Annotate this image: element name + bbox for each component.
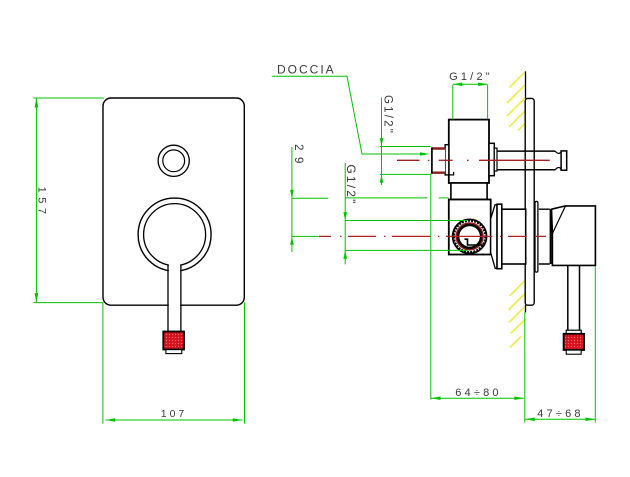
- svg-text:G1/2": G1/2": [381, 95, 393, 135]
- dimension 107: [103, 302, 245, 423]
- handle tube: [539, 209, 550, 264]
- cartridge ring outer: [453, 219, 487, 253]
- wall hatch upper: [507, 72, 526, 131]
- centerline cartridge axis: [319, 235, 546, 237]
- handle ring strip: [535, 201, 538, 272]
- cover plate: [103, 98, 244, 305]
- body ledge notch: [449, 172, 454, 175]
- svg-text:G1/2": G1/2": [344, 164, 358, 205]
- right collar: [489, 143, 494, 175]
- pipe end cap: [561, 151, 567, 170]
- lever side: [568, 265, 580, 331]
- wall line: [525, 71, 527, 312]
- cartridge ring knurl: [454, 221, 485, 252]
- lever bar sides: [168, 265, 181, 332]
- connector cone body to flange: [491, 205, 497, 268]
- svg-text:107: 107: [161, 408, 188, 420]
- dimension 64÷80: [431, 174, 524, 400]
- cartridge ring red: [456, 223, 483, 250]
- handle escutcheon inner circle: [144, 204, 206, 266]
- handle body left thick line: [550, 209, 552, 264]
- lower valve body: [449, 200, 491, 255]
- diverter button outer circle: [158, 145, 189, 176]
- cartridge ring 4: [457, 224, 481, 248]
- dimension 47÷68: [525, 267, 596, 423]
- dimension 157: [34, 98, 105, 303]
- diverter button inner circle: [163, 150, 185, 172]
- cartridge stem step: [465, 239, 484, 245]
- wall hatch lower: [509, 280, 526, 348]
- escutcheon plate side view: [525, 98, 534, 305]
- shower outlet pipe: [497, 151, 555, 170]
- lever knob side: [564, 334, 585, 350]
- svg-text:47÷68: 47÷68: [537, 408, 584, 420]
- flange plate: [497, 204, 502, 269]
- lever knob cap side: [566, 350, 581, 354]
- svg-text:157: 157: [36, 187, 48, 219]
- lever knob front: [163, 332, 184, 350]
- lever knob cap front: [166, 350, 182, 354]
- neck between bodies: [451, 183, 487, 200]
- svg-text:64÷80: 64÷80: [455, 387, 502, 399]
- right step ring: [494, 148, 497, 171]
- svg-text:G1/2": G1/2": [449, 71, 493, 83]
- svg-text:29: 29: [292, 144, 304, 170]
- handle body: [552, 206, 596, 266]
- lever bar mask: [169, 263, 180, 332]
- svg-text:DOCCIA: DOCCIA: [277, 63, 336, 77]
- left collar: [445, 145, 449, 175]
- handle escutcheon outer circle: [138, 198, 211, 271]
- centerline top axis: [397, 159, 550, 161]
- knob collar side: [566, 330, 581, 334]
- cartridge bore: [459, 225, 481, 247]
- stem housing through wall: [502, 209, 526, 264]
- upper valve body: [449, 120, 489, 183]
- handle chamfer line: [552, 206, 565, 234]
- inlet nipple G1/2: [432, 148, 446, 173]
- DOCCIA leader: [272, 76, 427, 154]
- pipe neck: [555, 151, 561, 170]
